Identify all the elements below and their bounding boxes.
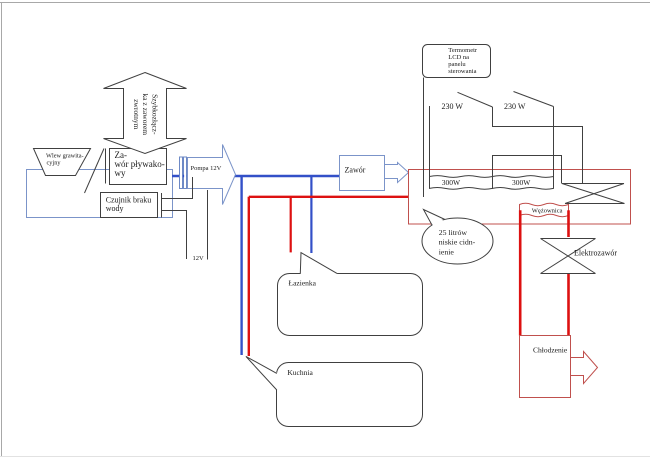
svg-text:230 W: 230 W	[442, 102, 464, 111]
svg-text:Kuchnia: Kuchnia	[287, 368, 313, 377]
heater element 300W right	[493, 176, 554, 190]
canvas border left	[1, 3, 3, 457]
valve box text	[115, 150, 165, 178]
wire blue drop to bathroom	[310, 176, 312, 253]
svg-text:wy: wy	[115, 168, 126, 178]
pump arrow Pompa 12V	[188, 145, 236, 205]
svg-text:300W: 300W	[512, 178, 531, 187]
svg-text:300W: 300W	[442, 178, 461, 187]
sensor box Czujnik braku wody	[101, 193, 158, 218]
svg-text:25 litrów: 25 litrów	[439, 228, 468, 237]
sensor terminal bar	[161, 193, 163, 218]
double arrow Szybkozlaczka z zaworem zwrotnym	[104, 73, 187, 154]
wire red drop to kitchen	[248, 197, 250, 356]
wire main blue line from loop to Zawor	[172, 175, 340, 177]
cooling box Chlodzenie	[520, 336, 571, 398]
wire sensor to 12V	[162, 211, 187, 260]
svg-text:Chłodzenie: Chłodzenie	[533, 346, 568, 355]
speech bubble 25 litrow	[422, 210, 493, 265]
svg-text:Zawór: Zawór	[345, 165, 366, 174]
funnel Wlew grawitacyjny	[34, 149, 91, 176]
switch 2	[514, 92, 554, 107]
svg-text:230 W: 230 W	[504, 102, 526, 111]
arrow Zawor to tank	[385, 163, 409, 183]
speech bubble Kuchnia	[246, 356, 423, 426]
pipe coil right to electrovalve	[567, 210, 570, 237]
wire heater1 left terminal	[429, 106, 431, 177]
wire blue drop to kitchen	[240, 176, 242, 355]
svg-text:wody: wody	[106, 204, 124, 213]
svg-text:ka z zaworem: ka z zaworem	[141, 93, 150, 135]
svg-text:12V: 12V	[193, 255, 205, 262]
electrovalve X Elektrozawor	[541, 239, 618, 274]
svg-text:zwrotnym: zwrotnym	[132, 99, 141, 130]
wire thermometer probe	[423, 78, 425, 198]
svg-text:Łazienka: Łazienka	[289, 279, 317, 288]
wire red drop to bathroom	[290, 197, 292, 253]
svg-text:Wlew grawita-: Wlew grawita-	[46, 152, 84, 159]
wire heater mid terminal	[493, 156, 562, 184]
svg-text:sterowania: sterowania	[448, 68, 476, 75]
valve box Zawor	[340, 156, 385, 191]
cooling out arrow	[571, 352, 598, 384]
wire sensor to pump	[162, 177, 193, 199]
svg-text:Termometr: Termometr	[448, 47, 478, 54]
coil box Wezownica	[520, 203, 569, 216]
svg-text:Czujnik braku: Czujnik braku	[106, 195, 152, 204]
pump inlet plates	[180, 157, 189, 189]
svg-text:ienie: ienie	[439, 247, 455, 256]
thermometer box Termometr LCD	[423, 45, 491, 78]
svg-text:panelu: panelu	[448, 61, 466, 68]
valve box Zawor plywakowy	[110, 149, 167, 185]
wire switch1 to valve	[493, 107, 583, 184]
heat exchanger valve X	[562, 184, 625, 204]
canvas border bottom	[0, 456, 650, 458]
wire pump to 12V	[207, 190, 209, 260]
svg-text:niskie cidn-: niskie cidn-	[439, 238, 476, 247]
canvas border top	[0, 2, 650, 4]
svg-text:cyjny: cyjny	[47, 159, 62, 166]
svg-text:Pompa 12V: Pompa 12V	[191, 165, 222, 172]
svg-text:Szybkozłącz-: Szybkozłącz-	[150, 94, 159, 135]
wire switch2 to heater2	[553, 107, 555, 178]
pipe coil left down	[519, 210, 522, 335]
heater element 300W left	[430, 176, 493, 190]
float lever diagonal	[85, 149, 105, 194]
pipe electrovalve to cooling	[567, 274, 570, 336]
switch 1	[458, 92, 493, 107]
svg-text:Elektrozawór: Elektrozawór	[574, 248, 617, 257]
tank outline	[409, 170, 631, 225]
svg-text:Wężownica: Wężownica	[532, 208, 563, 215]
wire red hot main	[249, 196, 409, 198]
float lever vertical	[105, 149, 107, 184]
wire blue supply loop	[27, 170, 173, 218]
speech bubble Lazienka	[278, 253, 423, 336]
